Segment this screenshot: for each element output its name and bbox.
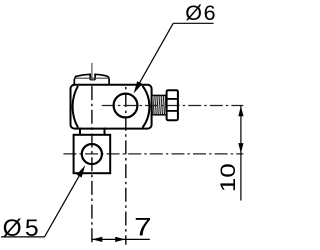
centerline: upper bore vertical axis (also extension line of dimension 7): [125, 87, 127, 245]
body right end silhouette arc: [143, 86, 150, 128]
dimension 7 left arrowhead: [92, 237, 102, 242]
svg-text:Ø6: Ø6: [185, 1, 215, 25]
neck between body and lower block: [80, 128, 105, 136]
centerline: upper bore horizontal axis / stud axis: [102, 105, 244, 107]
svg-text:Ø5: Ø5: [3, 215, 39, 242]
body left end silhouette arc: [73, 86, 78, 128]
screw head flange line: [75, 77, 110, 79]
threaded stud: [152, 95, 167, 114]
centerline: lower bore horizontal axis: [63, 153, 243, 155]
screw slot bottom: [90, 79, 95, 81]
dimension 10 lower arrowhead: [238, 143, 243, 153]
svg-text:10: 10: [217, 163, 240, 192]
lower bore (diameter 5): [82, 144, 102, 164]
dimension 7 right arrowhead: [115, 237, 125, 242]
dimension line 10 (right, vertical): [240, 106, 242, 201]
leader arrowhead at upper bore: [134, 81, 143, 93]
centerline: clamp screw / lower bore vertical axis: [91, 63, 93, 245]
dimension 10 upper arrowhead: [238, 106, 243, 116]
dimension line 7 (bottom, horizontal): [92, 238, 150, 240]
lower block outline: [74, 135, 111, 173]
upper bore (diameter 6): [114, 94, 138, 118]
svg-text:7: 7: [134, 214, 152, 242]
leader line for diameter 5: [1, 173, 81, 237]
hex nut on stud: [167, 90, 178, 120]
main cylindrical body outline: [71, 85, 152, 129]
slotted clamp screw head: [74, 74, 109, 84]
leader arrowhead at lower bore: [77, 165, 86, 177]
leader line for diameter 6: [136, 23, 213, 88]
